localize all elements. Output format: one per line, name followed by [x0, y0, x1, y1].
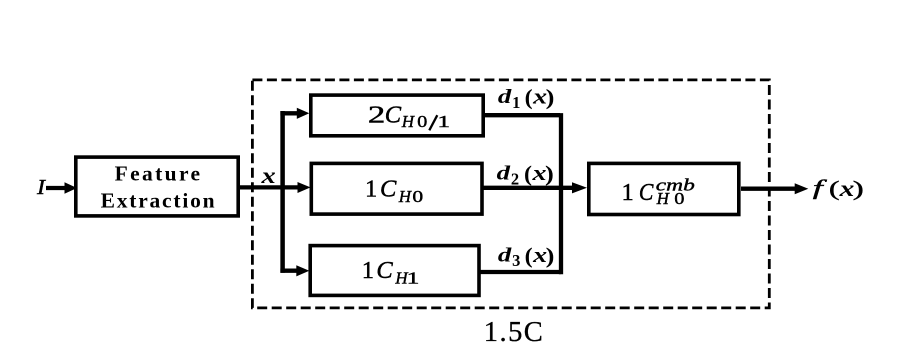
svg-text:H: H: [656, 189, 671, 208]
svg-text:I: I: [36, 175, 46, 199]
svg-text:1: 1: [365, 176, 377, 203]
svg-text:0: 0: [412, 187, 423, 206]
svg-text:1.5C: 1.5C: [484, 317, 543, 348]
svg-text:C: C: [639, 179, 654, 206]
svg-text:d: d: [497, 163, 512, 185]
svg-text:2: 2: [511, 169, 519, 188]
svg-text:x: x: [260, 163, 275, 188]
wire d3: 1C_H1 to merge line: [479, 270, 561, 274]
block 1C_H1: [310, 246, 479, 296]
svg-text:d: d: [498, 86, 513, 108]
wire branch to 1C_H1: [280, 269, 297, 273]
svg-text:d: d: [498, 244, 513, 266]
svg-text:1: 1: [512, 93, 520, 112]
wire output to f(x): [741, 186, 796, 190]
svg-text:1: 1: [622, 179, 634, 206]
node d_2(x) label: [497, 160, 554, 188]
svg-text:(: (: [525, 85, 533, 110]
node d_3(x) label: [498, 242, 554, 270]
block 1C_H0 cmb: [589, 163, 739, 214]
wire d1: 2C_H0/1 to merge line: [483, 113, 560, 117]
svg-text:(: (: [525, 243, 533, 268]
svg-text:0: 0: [417, 112, 427, 131]
wire x: Feature Extraction to branch point into 1C_H0: [240, 185, 299, 189]
dashed boundary box 1.5C: [252, 80, 769, 308]
svg-text:H: H: [401, 112, 416, 131]
wire branch vertical: [280, 111, 285, 273]
svg-text:): ): [545, 161, 554, 186]
node f(x) label: [813, 176, 864, 201]
svg-text:3: 3: [512, 251, 520, 270]
svg-text:0: 0: [674, 189, 684, 208]
svg-text:C: C: [380, 176, 397, 203]
svg-text:1: 1: [362, 257, 374, 284]
svg-text:Feature: Feature: [115, 162, 200, 186]
svg-text:1: 1: [437, 112, 450, 131]
svg-text:C: C: [376, 257, 393, 284]
node d_1(x) label: [498, 84, 554, 112]
svg-text:): ): [546, 243, 555, 268]
svg-text:Extraction: Extraction: [101, 189, 215, 213]
svg-text:): ): [853, 176, 864, 200]
block 1C_H0: [311, 163, 482, 214]
svg-text:H: H: [398, 187, 413, 206]
wire d2: 1C_H0 to 1C_H0cmb with arrow: [482, 186, 575, 190]
wire branch to 2C_H0/1: [280, 111, 297, 115]
svg-text:2: 2: [368, 102, 385, 129]
wire I to Feature Extraction: [46, 186, 66, 190]
svg-text:): ): [546, 85, 555, 110]
svg-text:(: (: [829, 176, 840, 200]
svg-text:1: 1: [407, 268, 420, 287]
svg-text:C: C: [385, 102, 402, 129]
block 2C_H0/1: [311, 95, 483, 136]
block Feature Extraction: [76, 157, 238, 216]
svg-text:(: (: [524, 161, 532, 186]
